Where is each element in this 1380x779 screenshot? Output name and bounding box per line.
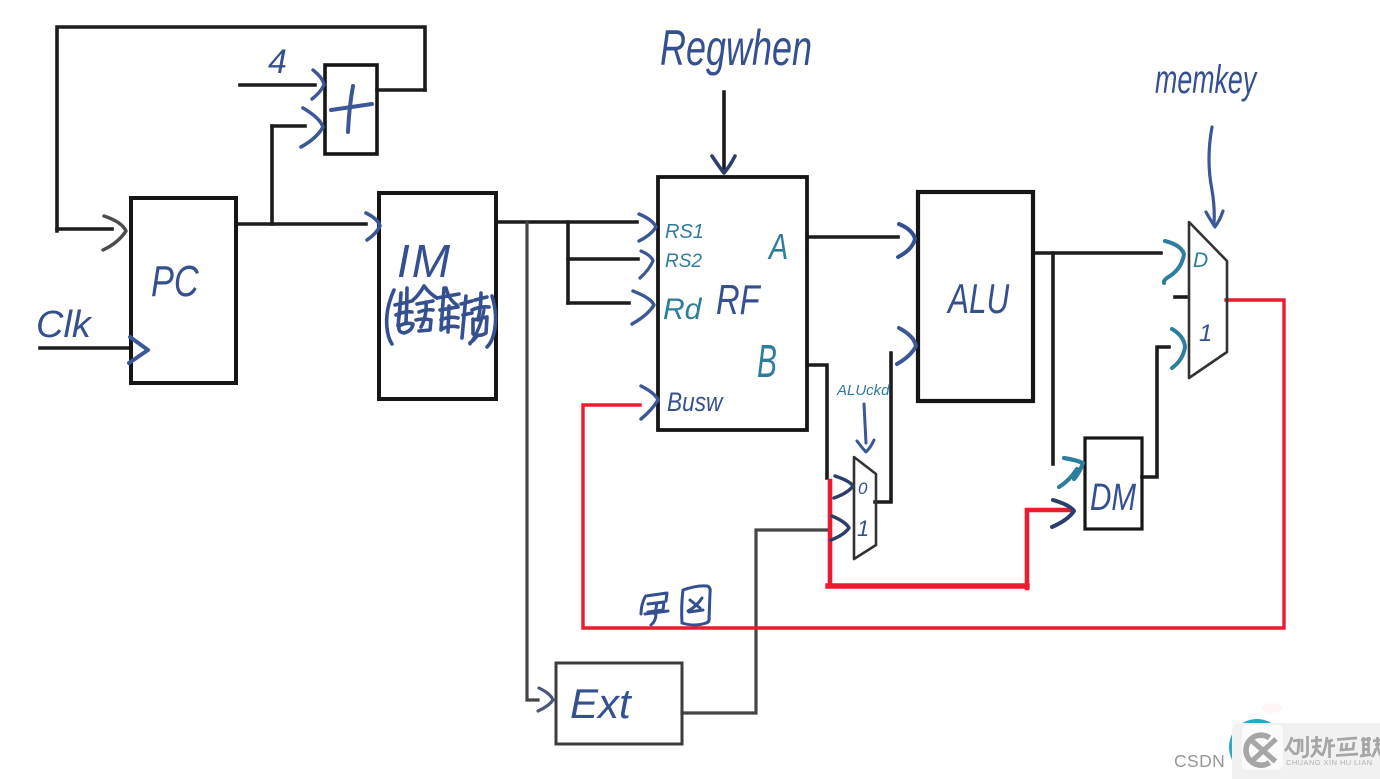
svg-text:DM: DM xyxy=(1090,477,1137,519)
svg-text:Clk: Clk xyxy=(36,304,93,346)
svg-text:IM: IM xyxy=(397,235,452,287)
svg-text:A: A xyxy=(767,226,788,267)
svg-text:Rd: Rd xyxy=(663,293,703,326)
svg-text:D: D xyxy=(1193,249,1208,272)
svg-text:PC: PC xyxy=(151,257,199,306)
svg-text:0: 0 xyxy=(858,479,868,498)
svg-text:ALUckd: ALUckd xyxy=(836,382,890,399)
svg-text:CHUANG XIN HU LIAN: CHUANG XIN HU LIAN xyxy=(1286,758,1373,767)
svg-text:B: B xyxy=(757,337,777,388)
svg-text:Busw: Busw xyxy=(667,387,724,417)
svg-text:4: 4 xyxy=(268,43,287,81)
svg-text:ALU: ALU xyxy=(946,275,1009,323)
svg-text:memkey: memkey xyxy=(1155,58,1258,103)
svg-text:RS2: RS2 xyxy=(665,251,702,272)
svg-text:Ext: Ext xyxy=(570,680,633,727)
svg-text:1: 1 xyxy=(857,516,869,541)
svg-text:Regwhen: Regwhen xyxy=(660,21,812,76)
svg-text:1: 1 xyxy=(1199,320,1212,347)
svg-text:CSDN: CSDN xyxy=(1174,751,1225,771)
svg-text:RF: RF xyxy=(716,276,761,323)
svg-text:RS1: RS1 xyxy=(665,221,704,243)
